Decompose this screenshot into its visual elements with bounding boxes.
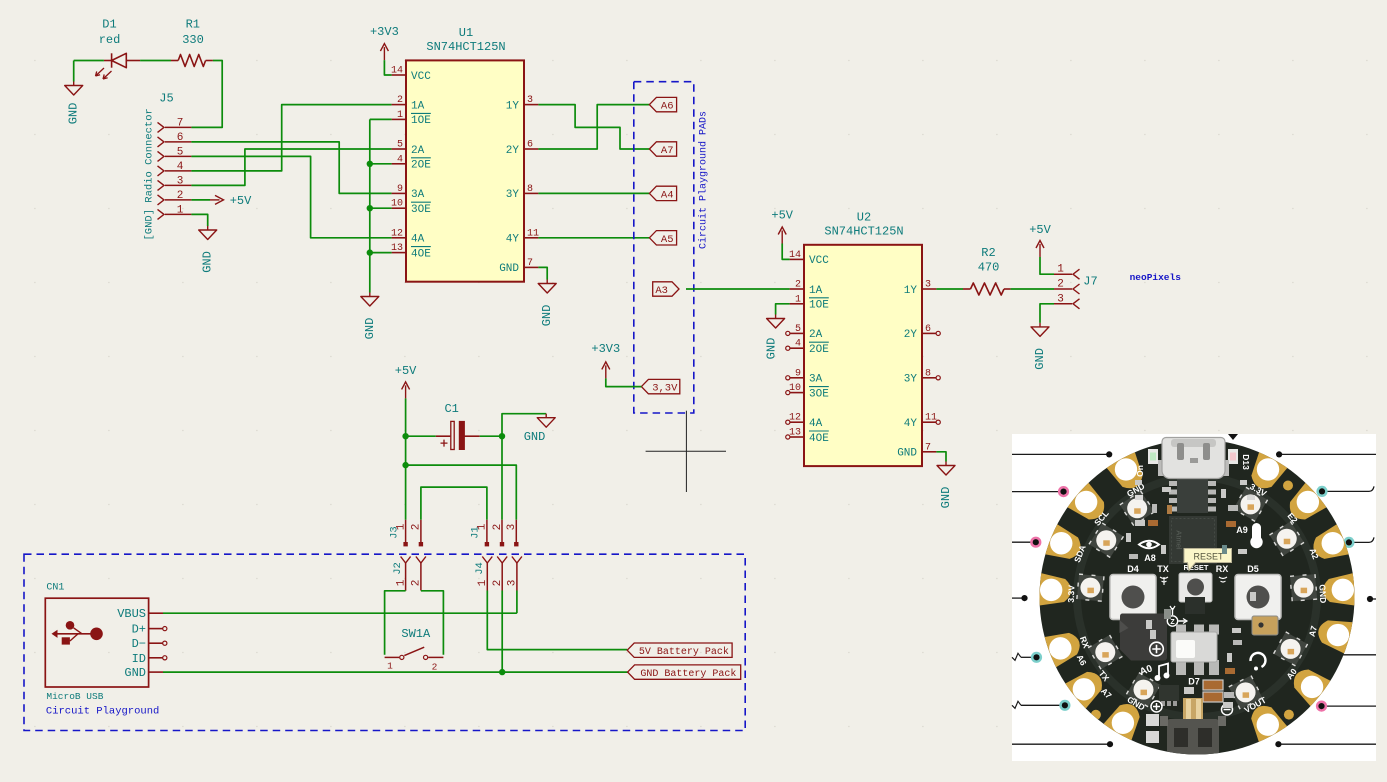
svg-text:A3: A3 — [655, 285, 668, 297]
U2 open pins — [786, 331, 790, 335]
svg-text:+5V: +5V — [230, 194, 252, 208]
CN1 pin ID — [149, 657, 163, 659]
photo Circuit Playground board — [1012, 434, 1376, 761]
svg-text:3: 3 — [1057, 293, 1064, 305]
svg-text:+5V: +5V — [395, 364, 417, 378]
svg-text:SN74HCT125N: SN74HCT125N — [426, 40, 505, 54]
svg-text:GND: GND — [897, 448, 917, 460]
svg-text:2: 2 — [432, 662, 438, 673]
resistor R1 — [171, 18, 213, 67]
board eye icon A8 — [1139, 541, 1159, 549]
svg-text:D7: D7 — [1188, 677, 1200, 687]
svg-text:5V Battery Pack: 5V Battery Pack — [639, 646, 729, 658]
svg-text:1OE: 1OE — [809, 300, 829, 312]
svg-text:ID: ID — [132, 652, 146, 666]
svg-text:11: 11 — [527, 228, 539, 239]
global label GND Battery Pack — [628, 665, 741, 679]
sheet Circuit Playground PADs — [634, 82, 694, 413]
connector J5 pin 3 — [158, 180, 165, 190]
photo annotation lines — [1012, 453, 1109, 455]
wire J7.3 to GND — [1040, 304, 1054, 323]
connector J4 pin 1 — [482, 557, 492, 564]
svg-text:VBUS: VBUS — [117, 607, 146, 621]
svg-text:1: 1 — [1057, 264, 1064, 276]
wire U1 4Y to A5 — [538, 237, 649, 239]
ground U1 pin7 — [538, 280, 556, 327]
junction C1 left — [402, 433, 408, 439]
svg-text:3.3V: 3.3V — [1066, 585, 1077, 603]
svg-text:D4: D4 — [1127, 564, 1139, 574]
svg-text:Z: Z — [1170, 619, 1175, 626]
capacitor C1 — [436, 402, 480, 449]
connector J1 — [470, 520, 519, 547]
svg-text:2: 2 — [492, 524, 504, 531]
svg-text:13: 13 — [391, 243, 403, 254]
ground J7 — [1031, 323, 1049, 370]
global label A5 — [649, 231, 676, 245]
svg-text:1: 1 — [795, 294, 801, 305]
svg-text:9: 9 — [397, 184, 403, 195]
connector J3 pin 1 — [405, 520, 407, 543]
svg-text:5: 5 — [177, 147, 184, 159]
resistor R2 — [963, 246, 1011, 295]
connector J2 pin 2 — [416, 557, 426, 564]
ground U2 1OE — [765, 315, 785, 360]
svg-text:A6: A6 — [661, 101, 674, 113]
svg-text:2: 2 — [1057, 279, 1064, 291]
svg-text:1: 1 — [395, 523, 407, 530]
connector J5 pin 5 — [158, 151, 165, 161]
connector J7 — [1054, 264, 1098, 309]
ground U2 pin7 — [937, 462, 955, 509]
svg-text:A4: A4 — [661, 189, 674, 201]
svg-text:1Y: 1Y — [904, 285, 918, 297]
svg-text:1OE: 1OE — [411, 115, 431, 127]
svg-text:4A: 4A — [809, 418, 823, 430]
svg-text:D5: D5 — [1247, 564, 1259, 574]
wire A3 to U2 1A — [686, 288, 790, 290]
wire U2 GND pin — [936, 452, 946, 462]
board slide switch — [1176, 625, 1186, 635]
svg-text:3Y: 3Y — [506, 189, 520, 201]
svg-text:+5V: +5V — [771, 209, 793, 223]
svg-text:2: 2 — [411, 524, 423, 531]
svg-text:On: On — [1135, 465, 1145, 477]
svg-text:D−: D− — [132, 637, 146, 651]
wire U1 2Y to A6 — [538, 105, 649, 149]
wire J5.5 to U1 4A — [191, 156, 391, 237]
wire R2 to J7.2 — [1011, 288, 1054, 290]
svg-text:5: 5 — [795, 324, 801, 335]
connector J7 pin 1 — [1054, 273, 1072, 275]
svg-text:5: 5 — [397, 140, 403, 151]
svg-text:A9: A9 — [1236, 525, 1248, 535]
wire J2.1 to SW1A.1 — [405, 590, 407, 592]
svg-text:3Y: 3Y — [904, 374, 918, 386]
svg-text:D+: D+ — [132, 623, 146, 637]
svg-text:3: 3 — [507, 580, 519, 587]
svg-text:4: 4 — [795, 339, 801, 350]
svg-text:12: 12 — [789, 413, 801, 424]
svg-text:VCC: VCC — [411, 71, 431, 83]
wire J2.2 to SW1A.2 — [421, 591, 444, 655]
svg-text:U1: U1 — [459, 26, 473, 40]
board passives — [1162, 487, 1171, 492]
power +5V J5 — [210, 194, 252, 208]
wire +5V down to J3.1 — [405, 398, 407, 519]
svg-text:3OE: 3OE — [809, 388, 829, 400]
svg-text:2: 2 — [397, 95, 403, 106]
wire J5.3 to U1 2A — [191, 149, 391, 185]
wire C1 right to GND — [480, 435, 502, 437]
svg-text:3: 3 — [925, 280, 931, 291]
wire J4.2 to GND net — [501, 591, 503, 673]
svg-text:GND Battery Pack: GND Battery Pack — [640, 668, 736, 680]
svg-text:3: 3 — [527, 95, 533, 106]
svg-text:TX: TX — [1157, 564, 1169, 574]
svg-text:2Y: 2Y — [506, 145, 520, 157]
svg-text:1: 1 — [477, 523, 489, 530]
svg-text:14: 14 — [789, 250, 801, 261]
wire U1 GND pin — [538, 267, 547, 279]
power +5V U2 — [771, 209, 793, 244]
ground J5.1 — [199, 226, 217, 273]
svg-text:11: 11 — [925, 413, 937, 424]
svg-text:red: red — [99, 33, 121, 47]
junction GND battery — [499, 669, 505, 675]
junction U1 3OE — [367, 205, 373, 211]
svg-text:4: 4 — [397, 154, 403, 165]
svg-text:GND: GND — [124, 666, 146, 680]
svg-text:4OE: 4OE — [809, 433, 829, 445]
svg-text:GND: GND — [540, 305, 554, 327]
wire GND CN1 to label — [163, 671, 628, 673]
svg-text:6: 6 — [177, 132, 184, 144]
svg-text:470: 470 — [978, 261, 1000, 275]
svg-text:12: 12 — [391, 228, 403, 239]
svg-text:A5: A5 — [661, 234, 674, 246]
connector J4 — [474, 557, 522, 591]
svg-text:3OE: 3OE — [411, 204, 431, 216]
svg-text:8: 8 — [925, 368, 931, 379]
svg-text:J2: J2 — [392, 562, 404, 575]
svg-text:4Y: 4Y — [904, 418, 918, 430]
svg-text:7: 7 — [177, 118, 184, 130]
connector J1 pin 3 — [515, 520, 517, 543]
global label 5V Battery Pack — [627, 643, 732, 657]
svg-text:U2: U2 — [857, 210, 871, 224]
svg-text:13: 13 — [789, 428, 801, 439]
svg-text:1: 1 — [395, 579, 407, 586]
svg-text:2Y: 2Y — [904, 329, 918, 341]
IC U2 SN74HCT125N — [789, 210, 937, 466]
wire +5V to J7.1 — [1040, 257, 1054, 274]
svg-text:GND: GND — [1033, 348, 1047, 370]
svg-text:1: 1 — [397, 110, 403, 121]
svg-text:9: 9 — [795, 368, 801, 379]
board PCB — [1040, 440, 1355, 755]
svg-text:GND: GND — [363, 318, 377, 340]
svg-text:R2: R2 — [981, 246, 995, 260]
svg-text:2A: 2A — [809, 329, 823, 341]
svg-text:4Y: 4Y — [506, 234, 520, 246]
CN1 pin VBUS — [149, 612, 163, 614]
svg-text:GND: GND — [1317, 584, 1328, 603]
svg-text:4A: 4A — [411, 234, 425, 246]
sheet MicroB USB / Circuit Playground — [24, 554, 745, 730]
global label A4 — [649, 186, 676, 200]
wire J5.1 to GND — [191, 214, 207, 226]
wire D1 cathode to GND — [74, 60, 104, 62]
CN1 pin D- — [149, 642, 163, 644]
wire J5.2 to +5V — [191, 199, 210, 201]
connector CN1 MicroB USB — [45, 583, 167, 718]
svg-text:2A: 2A — [411, 145, 425, 157]
switch SW1A — [385, 627, 444, 673]
LED D1 — [96, 18, 141, 80]
svg-text:2: 2 — [411, 580, 423, 587]
wire U2 1Y to R2 — [936, 288, 963, 290]
svg-text:2OE: 2OE — [411, 160, 431, 172]
svg-text:GND: GND — [765, 338, 779, 360]
svg-text:R1: R1 — [186, 18, 200, 32]
CN1 USB icon — [52, 621, 103, 645]
power +5V J7 — [1029, 223, 1051, 257]
connector J7 pin 2 — [1054, 288, 1072, 290]
wire +5V to U2 VCC — [782, 244, 789, 260]
board regulator — [1169, 481, 1178, 486]
svg-text:6: 6 — [527, 140, 533, 151]
wire U1 3Y to A4 — [538, 192, 649, 194]
svg-text:+3V3: +3V3 — [591, 342, 620, 356]
svg-text:GND: GND — [499, 263, 519, 275]
connector J5 pin 7 — [158, 122, 165, 132]
board battery connector — [1183, 698, 1203, 722]
svg-text:2OE: 2OE — [809, 344, 829, 356]
svg-text:Circuit Playground: Circuit Playground — [46, 706, 159, 718]
board USB connector — [1186, 470, 1202, 478]
svg-text:1A: 1A — [809, 285, 823, 297]
cursor crosshair — [685, 411, 687, 492]
board microphone — [1252, 616, 1278, 635]
board buzzer — [1120, 614, 1167, 661]
svg-text:10: 10 — [789, 383, 801, 394]
svg-text:3A: 3A — [809, 374, 823, 386]
svg-text:+5V: +5V — [1029, 223, 1051, 237]
junction J3.1 branch — [402, 462, 408, 468]
connector J2 — [392, 557, 426, 591]
connector J4 pin 3 — [512, 557, 522, 564]
board headphone icon — [1250, 653, 1265, 667]
svg-text:neoPixels: neoPixels — [1130, 272, 1182, 283]
svg-text:GND: GND — [939, 487, 953, 509]
svg-text:GND: GND — [524, 430, 546, 444]
svg-text:GND: GND — [201, 251, 215, 273]
junction C1 right — [499, 433, 505, 439]
wire J4.1 to 5V Battery Pack — [487, 591, 627, 650]
junction U1 2OE — [367, 161, 373, 167]
wire U2 1OE to GND — [776, 304, 790, 315]
CN1 pin GND — [149, 671, 163, 673]
connector J7 pin 3 — [1054, 303, 1072, 305]
svg-text:4: 4 — [177, 161, 184, 173]
svg-text:[GND] Radio Connector: [GND] Radio Connector — [144, 108, 156, 240]
wire U1 1Y to A7 — [538, 105, 649, 149]
svg-text:Atmel: Atmel — [1175, 530, 1184, 550]
ground U1 OE — [361, 293, 379, 340]
svg-text:J4: J4 — [474, 562, 486, 575]
wire VBUS CN1 — [163, 612, 517, 614]
svg-text:3,3V: 3,3V — [652, 383, 678, 395]
svg-text:1: 1 — [177, 205, 184, 217]
connector J3 pin 2 — [420, 520, 422, 543]
wire J4.3 to VBUS — [516, 591, 518, 614]
connector J4 pin 2 — [497, 557, 507, 564]
svg-text:1: 1 — [477, 579, 489, 586]
svg-text:4OE: 4OE — [411, 248, 431, 260]
board fiducial dots — [1283, 481, 1293, 491]
svg-text:330: 330 — [182, 33, 204, 47]
ground C1 — [537, 414, 555, 428]
board neopixels — [1120, 491, 1155, 526]
wire U1 OE bus to GND — [370, 118, 392, 120]
svg-text:GND: GND — [67, 103, 81, 125]
svg-text:14: 14 — [391, 66, 403, 77]
connector J2 pin 1 — [401, 557, 411, 564]
svg-text:J7: J7 — [1083, 275, 1097, 289]
board MCU Atmel — [1169, 516, 1217, 564]
RESET tooltip — [1184, 549, 1232, 571]
wire J3.2 to J1.1 — [421, 487, 487, 520]
svg-text:J5: J5 — [159, 92, 173, 106]
svg-text:10: 10 — [391, 199, 403, 210]
global label A6 — [649, 97, 676, 111]
CN1 pin D+ — [149, 628, 163, 630]
svg-text:RESET: RESET — [1193, 552, 1224, 562]
board pads — [1105, 450, 1150, 494]
svg-text:Circuit Playground PADs: Circuit Playground PADs — [698, 111, 710, 249]
wire J5.4 to U1 1A — [191, 105, 391, 171]
svg-text:+3V3: +3V3 — [370, 25, 399, 39]
wire C1 left — [406, 435, 436, 437]
wire D1 to R1 — [140, 60, 171, 62]
wire 3,3V to +3V3 — [606, 378, 642, 386]
svg-text:3: 3 — [506, 524, 518, 531]
connector J5 pin 2 — [158, 195, 165, 205]
power +3V3 U1 — [370, 25, 399, 60]
connector J5 — [144, 92, 192, 241]
connector J3 — [388, 520, 423, 547]
connector J5 pin 6 — [158, 137, 165, 147]
power +3V3 sheet — [591, 342, 620, 378]
connector J5 pin 4 — [158, 166, 165, 176]
svg-text:SW1A: SW1A — [401, 627, 431, 641]
junction U1 4OE — [367, 249, 373, 255]
connector J5 pin 1 — [158, 209, 165, 219]
wire bus to J1.3 — [406, 465, 517, 520]
svg-text:CN1: CN1 — [46, 583, 64, 594]
wire +3V3 to U1 VCC — [384, 60, 391, 75]
svg-text:RESET: RESET — [1183, 563, 1208, 572]
IC U1 SN74HCT125N — [391, 26, 539, 282]
power +5V C1 — [395, 364, 417, 398]
svg-text:D13: D13 — [1241, 454, 1251, 470]
svg-text:7: 7 — [925, 442, 931, 453]
svg-text:8: 8 — [527, 184, 533, 195]
svg-text:2: 2 — [492, 580, 504, 587]
connector J1 pin 1 — [486, 520, 488, 543]
global label 3,3V — [641, 379, 679, 393]
svg-text:MicroB USB: MicroB USB — [46, 691, 103, 702]
ground D1 — [65, 82, 83, 125]
svg-text:6: 6 — [925, 324, 931, 335]
global label A7 — [649, 142, 676, 156]
global label A3 — [653, 282, 679, 296]
svg-text:A8: A8 — [1144, 553, 1156, 563]
svg-text:RX: RX — [1216, 564, 1229, 574]
wire C1 down to J1.2 — [501, 436, 503, 520]
svg-text:A7: A7 — [661, 145, 674, 157]
connector J1 pin 2 — [501, 520, 503, 543]
board accelerometer — [1185, 597, 1205, 614]
svg-text:2: 2 — [795, 280, 801, 291]
svg-text:C1: C1 — [444, 402, 458, 416]
svg-text:SN74HCT125N: SN74HCT125N — [824, 224, 903, 238]
wire R1 to J5 pin7 — [191, 61, 222, 128]
svg-text:VCC: VCC — [809, 255, 829, 267]
svg-text:D1: D1 — [102, 18, 116, 32]
wire J5.6 to U1 3A — [191, 142, 391, 194]
svg-text:3A: 3A — [411, 189, 425, 201]
svg-text:1: 1 — [387, 661, 393, 672]
svg-text:7: 7 — [527, 258, 533, 269]
svg-text:1Y: 1Y — [506, 100, 520, 112]
svg-text:3: 3 — [177, 176, 184, 188]
svg-text:1A: 1A — [411, 100, 425, 112]
svg-text:2: 2 — [177, 190, 184, 202]
